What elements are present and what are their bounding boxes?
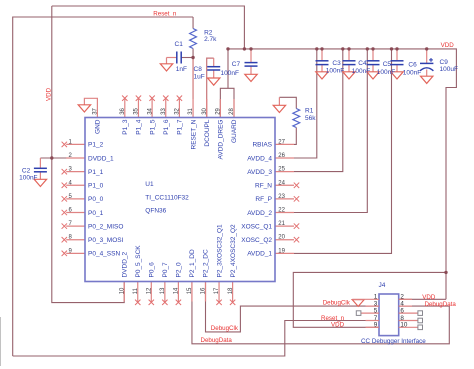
- svg-text:VDD: VDD: [46, 87, 53, 101]
- svg-text:AVDD_1: AVDD_1: [247, 251, 272, 258]
- svg-text:C1: C1: [175, 41, 184, 48]
- svg-text:C8: C8: [194, 66, 203, 73]
- svg-text:P1_5: P1_5: [149, 119, 156, 135]
- svg-text:DebugClk: DebugClk: [211, 325, 239, 332]
- svg-text:U1: U1: [145, 181, 154, 188]
- svg-text:AVDD_3: AVDD_3: [247, 169, 272, 176]
- svg-text:TI_CC1110F32: TI_CC1110F32: [145, 195, 189, 202]
- svg-text:100nF: 100nF: [19, 174, 37, 181]
- svg-text:20: 20: [278, 235, 285, 241]
- svg-text:C2: C2: [22, 167, 31, 174]
- svg-text:P2_3XOSC32_Q1: P2_3XOSC32_Q1: [216, 224, 223, 278]
- svg-text:RF_P: RF_P: [255, 196, 272, 203]
- svg-text:P1_6: P1_6: [163, 119, 170, 135]
- svg-text:31: 31: [188, 107, 194, 114]
- svg-text:36: 36: [120, 107, 126, 114]
- svg-text:12: 12: [147, 287, 153, 294]
- svg-text:14: 14: [174, 287, 180, 294]
- svg-text:GUARD: GUARD: [231, 119, 238, 143]
- svg-text:C4: C4: [358, 60, 367, 67]
- svg-text:RESET_N: RESET_N: [190, 119, 197, 149]
- svg-text:P0_5_SCK: P0_5_SCK: [135, 245, 142, 278]
- svg-text:C6: C6: [408, 62, 417, 69]
- svg-text:J4: J4: [379, 282, 386, 289]
- svg-text:Reset_n: Reset_n: [153, 11, 177, 18]
- svg-text:P2_0: P2_0: [176, 262, 183, 278]
- svg-text:1nF: 1nF: [176, 66, 187, 73]
- svg-text:AVDD_DREG: AVDD_DREG: [218, 119, 225, 159]
- svg-text:P2_1_DD: P2_1_DD: [189, 249, 196, 277]
- svg-text:P0_3_MOSI: P0_3_MOSI: [88, 237, 124, 244]
- svg-text:22: 22: [278, 208, 285, 214]
- svg-text:XOSC_Q1: XOSC_Q1: [241, 223, 272, 230]
- svg-text:100nF: 100nF: [352, 68, 370, 75]
- svg-text:RF_N: RF_N: [255, 183, 272, 190]
- svg-text:VDD: VDD: [422, 294, 436, 301]
- svg-text:35: 35: [134, 107, 140, 114]
- svg-text:DebugData: DebugData: [201, 337, 233, 344]
- svg-text:CC Debugger Interface: CC Debugger Interface: [361, 338, 426, 345]
- svg-text:DVDD_1: DVDD_1: [88, 155, 114, 162]
- svg-text:QFN36: QFN36: [145, 208, 166, 215]
- svg-text:30: 30: [202, 107, 208, 114]
- svg-text:32: 32: [175, 107, 181, 114]
- svg-text:C3: C3: [332, 60, 341, 67]
- svg-text:21: 21: [278, 221, 285, 227]
- svg-text:100nF: 100nF: [377, 69, 395, 76]
- svg-text:P0_0: P0_0: [88, 196, 104, 203]
- svg-text:9: 9: [374, 322, 378, 329]
- svg-text:24: 24: [278, 180, 285, 186]
- svg-text:DVDD_2: DVDD_2: [121, 251, 128, 277]
- svg-text:4: 4: [400, 301, 404, 308]
- svg-text:100nF: 100nF: [221, 70, 239, 77]
- svg-text:16: 16: [201, 287, 207, 294]
- svg-text:RBIAS: RBIAS: [252, 142, 272, 149]
- svg-text:AVDD_4: AVDD_4: [247, 155, 272, 162]
- svg-text:P0_6: P0_6: [149, 262, 156, 278]
- svg-text:100nF: 100nF: [326, 67, 344, 74]
- svg-text:DebugClk: DebugClk: [323, 300, 351, 307]
- svg-text:P1_3: P1_3: [122, 119, 129, 135]
- svg-text:P1_2: P1_2: [88, 142, 104, 149]
- svg-text:VDD: VDD: [331, 321, 345, 328]
- svg-text:13: 13: [160, 287, 166, 294]
- svg-text:3: 3: [374, 301, 378, 308]
- svg-text:P1_7: P1_7: [177, 119, 184, 135]
- svg-text:100uF: 100uF: [440, 66, 458, 73]
- svg-text:P0_2_MISO: P0_2_MISO: [88, 223, 123, 230]
- svg-text:DCOUPL: DCOUPL: [204, 119, 211, 146]
- svg-text:1uF: 1uF: [194, 73, 205, 80]
- svg-text:P2_2_DC: P2_2_DC: [203, 249, 210, 277]
- svg-text:P0_7: P0_7: [162, 262, 169, 278]
- svg-text:P2_4XOSC32_Q2: P2_4XOSC32_Q2: [230, 224, 237, 278]
- svg-text:29: 29: [216, 107, 222, 114]
- svg-text:56k: 56k: [305, 115, 316, 122]
- svg-text:37: 37: [93, 107, 99, 114]
- svg-text:XOSC_Q2: XOSC_Q2: [241, 237, 272, 244]
- svg-text:19: 19: [278, 248, 285, 254]
- svg-text:23: 23: [278, 194, 285, 200]
- svg-text:VDD: VDD: [441, 42, 455, 49]
- svg-text:P1_4: P1_4: [136, 119, 143, 135]
- svg-text:18: 18: [228, 287, 234, 294]
- svg-text:25: 25: [278, 167, 285, 173]
- svg-text:10: 10: [400, 322, 408, 329]
- svg-text:C7: C7: [232, 61, 241, 68]
- svg-text:AVDD_2: AVDD_2: [247, 210, 272, 217]
- svg-text:2.7k: 2.7k: [204, 36, 217, 43]
- svg-text:33: 33: [161, 107, 167, 114]
- svg-text:27: 27: [278, 139, 285, 145]
- svg-text:5: 5: [374, 308, 378, 315]
- svg-text:17: 17: [214, 287, 220, 294]
- svg-text:11: 11: [133, 287, 139, 294]
- svg-text:26: 26: [278, 153, 285, 159]
- svg-text:GND: GND: [95, 119, 102, 134]
- svg-text:DebugData: DebugData: [425, 301, 457, 308]
- svg-text:P1_1: P1_1: [88, 169, 104, 176]
- svg-text:P1_0: P1_0: [88, 183, 104, 190]
- svg-text:10: 10: [119, 287, 125, 294]
- svg-text:28: 28: [229, 107, 235, 114]
- svg-text:34: 34: [147, 107, 153, 114]
- svg-text:C5: C5: [383, 61, 392, 68]
- svg-text:P0_1: P0_1: [88, 210, 104, 217]
- svg-text:P0_4_SSN: P0_4_SSN: [88, 251, 120, 258]
- svg-text:6: 6: [400, 308, 404, 315]
- svg-text:15: 15: [187, 287, 193, 294]
- svg-text:100nF: 100nF: [403, 70, 421, 77]
- svg-text:R1: R1: [305, 107, 314, 114]
